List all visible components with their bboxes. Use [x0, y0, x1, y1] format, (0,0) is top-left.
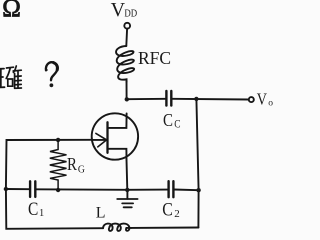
node: gate/RG junction dot — [56, 138, 60, 142]
text fragment: Chinese char 正 (clipped at left edge) — [0, 69, 5, 88]
capacitor Cc — [166, 91, 171, 106]
svg-text:DD: DD — [124, 8, 137, 19]
svg-text:2: 2 — [174, 208, 180, 220]
node: left rail / middle rail junction dot — [4, 187, 8, 191]
wire: RFC to drain node — [126, 80, 128, 100]
capacitor C1 — [30, 181, 35, 197]
text: full-width question mark — [46, 62, 58, 87]
svg-text:C: C — [174, 118, 181, 130]
text: Chinese char 確 (hand-drawn strokes) — [6, 66, 21, 88]
transistor Q1 drain lead — [108, 113, 127, 128]
resistor RG — [50, 140, 67, 190]
svg-text:L: L — [96, 205, 106, 222]
svg-text:V: V — [111, 0, 126, 21]
wire: Cc to Vo — [172, 98, 249, 101]
svg-text:R: R — [67, 154, 77, 174]
svg-text:RFC: RFC — [138, 48, 171, 68]
node: right rail / middle rail junction dot — [196, 188, 200, 192]
node: source / middle rail junction dot — [125, 188, 129, 192]
svg-text:G: G — [78, 164, 85, 176]
terminal Vo (open circle) — [249, 97, 254, 102]
svg-text:1: 1 — [39, 208, 44, 219]
svg-text:V: V — [257, 90, 268, 109]
wire: middle rail C1 to source node — [36, 188, 168, 191]
ground — [126, 190, 128, 199]
wire: middle rail C2 to right rail — [174, 189, 199, 192]
wire: VDD terminal to RFC — [125, 29, 128, 46]
inductor L — [103, 224, 131, 231]
node: drain junction dot — [125, 97, 129, 101]
node: RG bottom junction dot — [56, 188, 60, 192]
transistor Q1 source lead — [108, 149, 127, 160]
wire: bottom rail right segment — [131, 227, 198, 229]
transistor Q1 (JFET) circle — [92, 113, 138, 159]
node: junction dot at right rail top — [194, 97, 198, 101]
svg-text:o: o — [268, 99, 273, 109]
svg-text:Ω: Ω — [2, 0, 21, 22]
wire: bottom rail left segment — [6, 189, 103, 229]
terminal VDD (open circle) — [124, 23, 130, 29]
inductor RFC — [116, 46, 134, 82]
transistor Q1 channel bar — [106, 122, 108, 153]
wire: gate to left rail — [6, 140, 92, 189]
svg-text:C: C — [28, 200, 38, 220]
capacitor C2 — [169, 181, 174, 197]
wire: middle rail left segment (to C1) — [6, 188, 30, 190]
wire: drain node to Cc — [127, 98, 166, 100]
transistor Q1 gate line with arrow — [92, 139, 107, 141]
wire: source to middle rail — [126, 160, 129, 190]
svg-text:C: C — [163, 110, 173, 130]
wire: right rail (vertical) — [196, 99, 198, 228]
svg-text:C: C — [162, 200, 173, 221]
